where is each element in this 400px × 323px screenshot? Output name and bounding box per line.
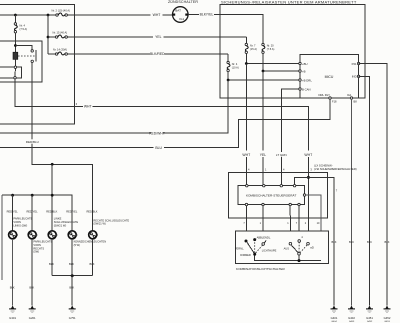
- wire YEL elbow down to fuse Nr7: [245, 37, 247, 43]
- svg-text:RED/YEL: RED/YEL: [66, 210, 78, 214]
- pins on control unit bottom: [245, 203, 300, 205]
- svg-text:G201: G201: [29, 316, 36, 320]
- dashed arm dimmer-lichthupe: [256, 245, 263, 253]
- switch arm dimmer-fernl: [247, 242, 254, 253]
- ground G452: [384, 306, 391, 323]
- wire rail y195: [2, 195, 72, 231]
- dashed link coil to contact: [18, 55, 35, 57]
- label WHT on relay line: [83, 104, 93, 109]
- pin P21: [352, 62, 360, 66]
- wire fuse7 output to MICU +BU: [246, 54, 298, 64]
- svg-text:≡D: ≡D: [310, 246, 314, 250]
- wire fuse20 output to MICU +B: [263, 54, 299, 72]
- svg-text:RED/BLU: RED/BLU: [26, 140, 39, 144]
- combination switch control unit inner box KOMBISCHALTER-STEUERGERAET: [238, 186, 305, 205]
- relay coil: [13, 52, 18, 59]
- wire P21 right and down to ground: [359, 64, 387, 306]
- pin on sub-box bottom: [14, 77, 16, 79]
- node: junction x263 y71: [262, 70, 265, 73]
- lamp 1 park front left: [9, 231, 18, 239]
- svg-text:G402: G402: [348, 316, 355, 320]
- fuse Nr.15 (40 A): [48, 30, 67, 38]
- svg-text:Nr. 20: Nr. 20: [267, 44, 274, 48]
- wire BLK/YEL from ignition to fuse Nr20: [188, 15, 263, 44]
- node: junction x228.1 y80: [227, 79, 230, 82]
- switch contact parking: [298, 235, 304, 242]
- connector sub-box in relay box: [0, 67, 22, 78]
- under-dash fuse/relay box: [220, 5, 365, 99]
- wire branch to control unit pin x294.6: [295, 177, 309, 184]
- switch contact FERNL: [245, 240, 248, 243]
- svg-text:(VIA SCHEINWERFERSCHALTER): (VIA SCHEINWERFERSCHALTER): [314, 167, 357, 171]
- pin IG1: [347, 93, 357, 103]
- wire inside sub-box: [14, 68, 16, 76]
- ground G401: [331, 306, 338, 323]
- svg-text:Nr. 14 (30A): Nr. 14 (30A): [53, 47, 67, 51]
- svg-text:WHT: WHT: [304, 153, 312, 157]
- svg-text:BLK: BLK: [49, 262, 54, 266]
- svg-text:BLK/RED: BLK/RED: [150, 52, 165, 56]
- relay box (daytime running light relay): [0, 41, 42, 82]
- svg-text:Nr. 2 (10) (40 A): Nr. 2 (10) (40 A): [52, 9, 71, 13]
- svg-text:BAT: BAT: [175, 8, 181, 12]
- wire relay coil return down and right (WHT): [15, 79, 308, 151]
- fuse Nr.2 (10) (40 A): [52, 9, 71, 17]
- wire to relay contact: [15, 46, 32, 50]
- wire lamp3 down: [51, 239, 53, 276]
- svg-text:B CAN: B CAN: [302, 87, 311, 91]
- wire left stub down: [1, 195, 3, 280]
- svg-text:BLK: BLK: [69, 262, 74, 266]
- svg-text:Nr. 4: Nr. 4: [20, 24, 26, 28]
- switch contact ABBLENDL: [253, 238, 256, 241]
- node: junction x15.4 y45.5: [14, 44, 17, 47]
- label WHT: [242, 152, 252, 157]
- svg-text:LINKS (5W): LINKS (5W): [13, 223, 27, 227]
- wire lamp2 drop: [31, 195, 33, 231]
- label RECHTE SCHLUSSLEUCHTE: [93, 218, 129, 225]
- svg-text:BLK: BLK: [332, 240, 337, 244]
- wire coil to connector pin: [14, 59, 16, 66]
- fuse Nr.4 (10 A) dash box: [227, 61, 239, 71]
- svg-text:(LX SCHEINW.-: (LX SCHEINW.-: [314, 163, 333, 167]
- lamp 3 tail left: [48, 231, 57, 239]
- pin IND: [352, 75, 360, 79]
- svg-text:IG1: IG1: [179, 17, 184, 21]
- label PARKLEUCHTE VORN LINKS: [13, 217, 32, 228]
- svg-text:+B DRL: +B DRL: [302, 78, 312, 82]
- svg-text:ABBLENDL.: ABBLENDL.: [257, 236, 272, 240]
- wire joined to ground: [71, 276, 73, 306]
- switch common DIMMER: [253, 253, 256, 256]
- label WHT on x308 wire: [304, 152, 314, 157]
- combination switch control unit outer box: [228, 172, 327, 218]
- dashed arm dimmer-abblendl: [254, 241, 256, 253]
- wire x52.2 down through y195 to lamp3: [51, 164, 53, 231]
- ground G402: [348, 306, 355, 323]
- svg-text:YEL: YEL: [155, 35, 162, 39]
- wire: vertical feed to fuse Nr.4 7.5A: [14, 15, 16, 23]
- wire lamp1 drop: [12, 195, 14, 231]
- switch common light: [298, 253, 301, 256]
- wire WHT x308 down to switch: [307, 157, 309, 244]
- wire relay contact down to lamps (RED/BLU): [32, 63, 92, 232]
- node: junction x52.2 y164.3: [51, 163, 54, 166]
- svg-text:BLK: BLK: [90, 262, 95, 266]
- svg-text:RED/BLK: RED/BLK: [86, 210, 97, 214]
- wire: vertical x48 to fuses 15/14: [47, 15, 49, 54]
- node: junction x48 y37: [47, 36, 50, 39]
- wire B CAN elbow from x281.3: [281, 89, 299, 185]
- svg-text:(5W): (5W): [33, 250, 39, 254]
- svg-text:BLK: BLK: [29, 286, 34, 290]
- relay contact: [31, 50, 36, 63]
- node: junction bus x299: [298, 259, 301, 262]
- svg-text:IND: IND: [352, 75, 357, 79]
- pin +B DRL: [299, 78, 313, 82]
- svg-text:WHT: WHT: [153, 13, 161, 17]
- lamp 5 tail right: [89, 231, 98, 239]
- svg-text:RECHTE SCHLUSSLEUCHTE: RECHTE SCHLUSSLEUCHTE: [93, 218, 129, 222]
- wire fuse4-10A output to MICU +B DRL: [228, 72, 299, 80]
- svg-text:G451: G451: [366, 316, 373, 320]
- wire IND right and down to ground: [359, 76, 370, 305]
- pin on sub-box top: [14, 66, 16, 68]
- switch contact headlight: [307, 242, 314, 249]
- svg-text:Nr. 15 (40 A): Nr. 15 (40 A): [53, 30, 68, 34]
- wire IG1 down to ground: [351, 99, 353, 305]
- svg-text:RED/BLK: RED/BLK: [46, 210, 57, 214]
- engine compartment fuse/relay box: [0, 5, 75, 125]
- wire branch right to BLK ground x334: [308, 177, 334, 305]
- svg-text:BLK: BLK: [385, 240, 390, 244]
- svg-text:YEL: YEL: [260, 153, 267, 157]
- dashed arm common-parking: [298, 242, 300, 252]
- wire fuse4 to relay: [14, 33, 16, 52]
- svg-text:LICHTHUPE: LICHTHUPE: [262, 249, 277, 253]
- pins on control unit top: [246, 185, 296, 187]
- svg-text:SICHERUNGS-/RELAISKASTEN UNTER: SICHERUNGS-/RELAISKASTEN UNTER DEM ARMAT…: [221, 0, 357, 5]
- svg-text:PARKLEUCHTE: PARKLEUCHTE: [33, 240, 52, 244]
- node: junction at x15.5 y15: [14, 14, 17, 17]
- switch contact AUS: [289, 242, 292, 245]
- wire YEL fuse20 down to control unit pin 1: [262, 71, 264, 185]
- wire: main battery feed y15: [0, 14, 56, 16]
- switch contact LICHTHUPE: [262, 240, 266, 245]
- svg-text:BLK: BLK: [367, 240, 372, 244]
- node: junction at x48 y15: [47, 14, 50, 17]
- label KENNZEICHENLEUCHTEN: [74, 240, 107, 247]
- wire: WHT from fuse2 to ignition: [67, 14, 172, 16]
- svg-text:DIMMER: DIMMER: [240, 253, 251, 257]
- svg-text:Nr. 7: Nr. 7: [250, 44, 256, 48]
- label LINKE SCHLUSSLEUCHTE: [54, 217, 79, 228]
- svg-text:DRL RLY: DRL RLY: [318, 93, 330, 97]
- svg-text:G301: G301: [9, 316, 16, 320]
- wire fuse4-10A down to RED/WHT rail: [0, 80, 228, 133]
- wire lamp2 to ground: [31, 239, 33, 306]
- wire lamp1 to ground: [12, 239, 14, 306]
- svg-text:F18: F18: [332, 100, 337, 104]
- svg-text:+B: +B: [302, 69, 306, 73]
- wire YEL y37 to dash box: [67, 36, 246, 38]
- svg-text:AUS: AUS: [284, 246, 290, 250]
- svg-text:ZÜNDSCHALTER: ZÜNDSCHALTER: [168, 0, 198, 4]
- wire lamp4 down: [71, 239, 73, 276]
- combination light switch box KOMBINATIONSLICHTSCHALTER: [235, 231, 328, 264]
- ignition switch ZUENDSCHALTER: [168, 0, 198, 22]
- wire dimmer to bus: [255, 256, 299, 261]
- svg-text:RED/YEL: RED/YEL: [26, 210, 38, 214]
- ground G451: [366, 306, 373, 323]
- svg-text:+BU: +BU: [302, 62, 308, 66]
- svg-text:G401: G401: [331, 316, 338, 320]
- svg-text:(5W/21 W): (5W/21 W): [54, 223, 67, 227]
- switch arm common-aus: [291, 245, 298, 253]
- label RED/BLU: [26, 139, 40, 144]
- wire BLK/RED y54: [67, 53, 228, 55]
- svg-text:SCHLUSSLEUCHTE: SCHLUSSLEUCHTE: [54, 220, 79, 224]
- node: junction x72.2 y275.7: [71, 274, 74, 277]
- svg-text:BLU: BLU: [155, 146, 162, 150]
- lamp 4 license plate: [68, 231, 77, 239]
- svg-text:KENNZEICHENLEUCHTEN: KENNZEICHENLEUCHTEN: [74, 240, 107, 244]
- wire tail join rail: [52, 275, 92, 277]
- wire WHT fuse7 down to control unit pin 4: [245, 64, 247, 185]
- node: junction x12.6 y195.2: [11, 194, 14, 197]
- svg-text:RED/WHT: RED/WHT: [149, 131, 165, 135]
- svg-text:(7.5 A): (7.5 A): [20, 27, 28, 31]
- svg-text:Nr. 4: Nr. 4: [232, 62, 238, 66]
- svg-text:BLK: BLK: [349, 240, 354, 244]
- pin DRL RLY: [318, 93, 337, 103]
- svg-text:(7.5 A): (7.5 A): [267, 47, 275, 51]
- svg-text:LINKE: LINKE: [54, 217, 62, 221]
- fuse Nr.4 (7.5 A) engine box: [14, 23, 27, 33]
- svg-text:FERNL.: FERNL.: [235, 247, 245, 251]
- fuse Nr.14 (30A): [48, 47, 67, 55]
- svg-text:BLK/YEL: BLK/YEL: [200, 13, 214, 17]
- label PARKLEUCHTE VORN RECHTS: [33, 240, 52, 254]
- svg-text:P21: P21: [352, 62, 357, 66]
- svg-text:PARKLEUCHTE: PARKLEUCHTE: [13, 217, 32, 221]
- svg-text:RECHTS: RECHTS: [33, 246, 44, 250]
- wire common to bus: [299, 255, 321, 261]
- wire lamp5 down: [92, 239, 94, 276]
- wires control unit bottom to switch box: [246, 206, 299, 243]
- node: junction WHT x308.4 y177.4: [307, 176, 310, 179]
- wire control unit right pin to switch (gray): [306, 195, 322, 260]
- node: junction x32.2 y195.2: [31, 194, 34, 197]
- svg-text:RED/YEL: RED/YEL: [7, 210, 19, 214]
- pin numbers row below outer box: [243, 222, 320, 225]
- label LT GRN on B CAN wire: [276, 152, 288, 157]
- pin +B: [299, 69, 306, 73]
- wire BLK/RED elbow down to fuse Nr4 10A: [227, 54, 229, 61]
- ground G201: [29, 306, 36, 321]
- svg-text:(15 A): (15 A): [250, 47, 257, 51]
- ground G301: [9, 306, 16, 321]
- svg-text:(5W/21 W): (5W/21 W): [93, 222, 106, 226]
- svg-text:G452: G452: [384, 316, 391, 320]
- pin B CAN: [299, 87, 311, 91]
- pin on control unit right edge: [303, 194, 305, 196]
- wire DRL RLY to BLU rail: [0, 99, 330, 148]
- lamp 2 park front right: [28, 231, 37, 239]
- svg-text:(5 W): (5 W): [74, 243, 80, 247]
- svg-text:WHT: WHT: [84, 105, 92, 109]
- svg-text:IG1: IG1: [347, 93, 352, 97]
- ground G751: [69, 306, 76, 321]
- svg-text:LT GRN: LT GRN: [276, 153, 287, 157]
- node: junction x246.3 y63.5: [245, 62, 248, 65]
- pin +BU: [299, 62, 308, 66]
- svg-text:KOMBISCHALTER-STEUERGERÄT: KOMBISCHALTER-STEUERGERÄT: [246, 194, 297, 198]
- fuse Nr.20 (7.5 A): [262, 43, 275, 53]
- svg-text:WHT: WHT: [242, 153, 250, 157]
- svg-text:BLK: BLK: [69, 286, 74, 290]
- svg-text:BLK: BLK: [10, 286, 15, 290]
- svg-text:(10 A): (10 A): [232, 65, 239, 69]
- fuse Nr.7 (15 A): [245, 43, 257, 53]
- svg-text:KOMBINATIONSLICHTSCHALTER: KOMBINATIONSLICHTSCHALTER: [236, 267, 285, 271]
- label YEL: [259, 152, 267, 157]
- svg-text:MICU: MICU: [325, 75, 334, 79]
- svg-text:G751: G751: [69, 316, 76, 320]
- MICU box: [300, 54, 359, 98]
- dashed arm common-headlight: [300, 245, 307, 253]
- svg-text:VORN: VORN: [33, 243, 41, 247]
- svg-text:B8: B8: [354, 100, 358, 104]
- svg-text:VORN: VORN: [13, 220, 21, 224]
- node: junction x52.2 y195.2: [51, 194, 54, 197]
